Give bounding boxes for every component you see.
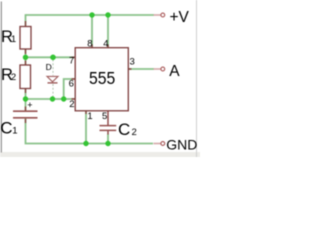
svg-text:A: A (169, 63, 180, 80)
svg-text:3: 3 (130, 57, 135, 68)
svg-text:2: 2 (11, 72, 16, 83)
svg-text:+V: +V (170, 9, 190, 26)
svg-text:C: C (118, 120, 130, 139)
svg-text:1: 1 (11, 34, 16, 45)
svg-text:1: 1 (12, 125, 17, 136)
svg-text:2: 2 (69, 99, 74, 110)
svg-text:2: 2 (132, 127, 137, 138)
svg-text:1: 1 (87, 111, 92, 122)
svg-text:6: 6 (69, 79, 74, 90)
svg-text:C: C (0, 118, 12, 137)
svg-text:7: 7 (69, 56, 74, 67)
svg-text:5: 5 (102, 111, 107, 122)
svg-text:GND: GND (166, 136, 197, 152)
svg-text:4: 4 (103, 39, 108, 50)
svg-text:8: 8 (87, 39, 92, 50)
svg-text:555: 555 (89, 68, 115, 88)
svg-text:D: D (46, 62, 52, 72)
svg-text:+: + (27, 100, 32, 110)
